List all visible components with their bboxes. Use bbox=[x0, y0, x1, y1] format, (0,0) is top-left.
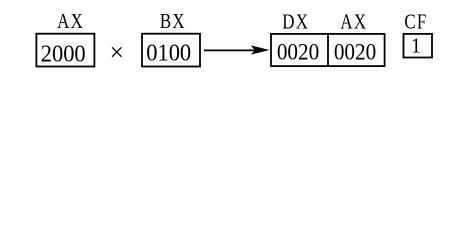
svg-text:0020: 0020 bbox=[334, 39, 376, 65]
svg-text:2000: 2000 bbox=[41, 41, 86, 68]
svg-text:1: 1 bbox=[411, 35, 421, 57]
register box BX bbox=[142, 34, 200, 67]
label BX bbox=[160, 11, 186, 34]
label CF bbox=[404, 11, 427, 34]
value 0020 (AX) bbox=[334, 39, 376, 65]
flag box CF bbox=[404, 34, 433, 58]
multiply sign bbox=[110, 38, 124, 66]
register pair box DX:AX bbox=[271, 34, 385, 66]
svg-text:BX: BX bbox=[160, 11, 186, 34]
svg-text:0020: 0020 bbox=[277, 39, 319, 65]
register box AX bbox=[36, 34, 94, 67]
value 1 (carry flag) bbox=[411, 35, 421, 57]
svg-text:AX: AX bbox=[57, 11, 84, 34]
value 0020 (DX) bbox=[277, 39, 319, 65]
label AX (over result) bbox=[340, 11, 367, 34]
label DX bbox=[282, 11, 309, 34]
svg-text:0100: 0100 bbox=[146, 40, 191, 67]
svg-text:AX: AX bbox=[340, 11, 367, 34]
svg-text:DX: DX bbox=[282, 11, 309, 34]
label AX (over first box) bbox=[57, 11, 84, 34]
value 2000 bbox=[41, 41, 86, 68]
svg-text:×: × bbox=[110, 38, 124, 66]
value 0100 bbox=[146, 40, 191, 67]
svg-text:CF: CF bbox=[404, 11, 427, 34]
arrow from BX to DX:AX bbox=[204, 45, 270, 54]
